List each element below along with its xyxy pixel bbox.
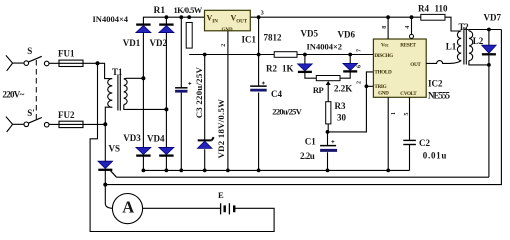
svg-text:C4: C4 — [271, 89, 282, 99]
svg-text:1K/0.5W: 1K/0.5W — [174, 5, 203, 15]
svg-text:R3: R3 — [335, 101, 346, 111]
svg-text:NE555: NE555 — [428, 91, 451, 101]
capacitor C2 — [403, 138, 447, 170]
svg-text:IN4004×4: IN4004×4 — [93, 14, 129, 24]
wire +12V line y54 — [189, 54, 373, 56]
wire pin5 CVOLT to C2 — [404, 97, 410, 140]
node rail pin4 — [410, 15, 414, 19]
node ground VD3 — [142, 169, 146, 173]
svg-text:4: 4 — [405, 26, 411, 29]
resistor R1 — [186, 23, 192, 49]
svg-text:RESET: RESET — [400, 43, 416, 49]
svg-text:C1: C1 — [305, 137, 316, 147]
svg-text:VD7: VD7 — [484, 13, 502, 23]
svg-text:IN4004×2: IN4004×2 — [307, 42, 343, 52]
wire IC1 GND to ground rail — [227, 31, 229, 171]
svg-text:T1: T1 — [112, 67, 123, 77]
wire zener branch vertical — [204, 55, 206, 171]
svg-text:3: 3 — [261, 11, 264, 17]
node rail C3 — [179, 15, 183, 19]
svg-text:5: 5 — [404, 113, 410, 116]
svg-text:Vcc: Vcc — [381, 43, 389, 49]
svg-text:2: 2 — [357, 81, 363, 84]
svg-text:IC2: IC2 — [428, 79, 443, 89]
capacitor C3 — [175, 67, 204, 119]
wire ground rail — [143, 169, 409, 171]
svg-text:DISCHG: DISCHG — [374, 53, 393, 59]
wire pin8 Vcc — [382, 17, 388, 39]
node FU1 output junction — [96, 61, 100, 65]
svg-text:8: 8 — [382, 26, 388, 29]
wire T1 primary bottom lead — [105, 107, 109, 124]
node rail R1 — [187, 15, 191, 19]
switch link dashed — [35, 60, 37, 121]
node VD6 top — [348, 53, 352, 57]
node VS cathode lineB — [103, 183, 107, 187]
svg-text:VD2: VD2 — [150, 38, 168, 48]
wire VD1-VD3 vertical line — [142, 17, 144, 170]
wire pin3 OUT to L1 — [426, 61, 461, 64]
op-amp IC2 NE555 — [373, 39, 450, 101]
switch S — [24, 46, 49, 66]
node rail VD2 — [165, 15, 169, 19]
wire left mains return line — [90, 63, 274, 231]
svg-text:VD3: VD3 — [123, 133, 141, 143]
node ground IC2 — [386, 169, 390, 173]
wire Vout / C4 vertical — [258, 17, 260, 170]
svg-text:CVOLT: CVOLT — [400, 91, 417, 97]
svg-text:30: 30 — [337, 113, 347, 123]
svg-text:S': S' — [27, 108, 35, 118]
svg-text:IC1: IC1 — [242, 35, 257, 45]
mains input fork upper — [6, 55, 24, 70]
node TRIG — [365, 84, 369, 88]
svg-text:7812: 7812 — [264, 33, 283, 43]
node rail pin8 — [386, 15, 390, 19]
svg-text:VD5: VD5 — [301, 29, 319, 39]
ammeter A — [112, 194, 142, 224]
svg-text:220u/25V: 220u/25V — [272, 107, 302, 117]
svg-text:VS: VS — [109, 144, 121, 154]
wire C3 vertical line — [180, 17, 182, 170]
node ground C1 — [326, 169, 330, 173]
wire S' to FU2 node — [49, 123, 105, 125]
wire pin4 RESET — [405, 17, 414, 38]
mains input fork lower — [6, 117, 24, 132]
wire S to FU1 to T1 — [49, 62, 98, 64]
svg-text:FU1: FU1 — [58, 49, 75, 59]
node C4 top — [257, 53, 261, 57]
wire pin1 GND — [388, 97, 397, 170]
svg-text:110: 110 — [435, 4, 449, 14]
zener diode VD2z — [197, 99, 226, 159]
svg-text:C2: C2 — [419, 138, 430, 148]
capacitor C1 — [300, 132, 337, 171]
svg-text:C3 220u/25V: C3 220u/25V — [194, 67, 204, 119]
diode VD2 — [150, 25, 174, 48]
node ground IC1 — [226, 169, 230, 173]
svg-text:R4: R4 — [418, 4, 429, 14]
node zener top — [203, 53, 207, 57]
node secondary top — [141, 76, 145, 80]
wire T1 primary top lead — [98, 63, 110, 78]
wire TRIG-THOLD net — [328, 72, 374, 132]
svg-text:VD1: VD1 — [123, 38, 141, 48]
resistor R2 — [266, 52, 297, 74]
wire ammeter to battery — [143, 207, 221, 209]
svg-text:TRIG: TRIG — [374, 84, 386, 90]
svg-text:220V~: 220V~ — [2, 90, 24, 100]
svg-text:R2: R2 — [266, 64, 277, 74]
transformer T2 — [456, 27, 501, 65]
svg-text:GND: GND — [222, 28, 234, 33]
diode VD1 — [123, 25, 151, 48]
op-amp IC1 7812 regulator — [205, 10, 283, 47]
node ground VD4 — [165, 169, 169, 173]
wire top rail from VD1 to T2 — [143, 17, 461, 31]
node ground zener — [203, 169, 207, 173]
switch S' — [24, 108, 49, 127]
svg-text:2.2u: 2.2u — [300, 151, 315, 161]
svg-text:THOLD: THOLD — [374, 69, 392, 75]
svg-text:1: 1 — [391, 112, 397, 115]
resistor R3 — [326, 101, 347, 132]
potentiometer RP — [313, 76, 352, 102]
svg-text:VD6: VD6 — [338, 30, 356, 40]
svg-text:VD2 18V/0.5W: VD2 18V/0.5W — [216, 99, 226, 159]
svg-text:S: S — [27, 46, 32, 56]
svg-text:2.2K: 2.2K — [334, 84, 352, 94]
node rail Vout — [257, 15, 261, 19]
node FU2 output junction — [103, 122, 107, 126]
svg-text:0.01u: 0.01u — [423, 151, 447, 161]
diode VD3 — [123, 133, 151, 156]
diode VD5 — [298, 29, 319, 79]
svg-text:1K: 1K — [282, 64, 294, 74]
svg-text:R1: R1 — [154, 6, 166, 16]
node VD7 bottom L2 — [487, 63, 491, 67]
transformer T1 — [108, 75, 167, 111]
battery E — [218, 190, 234, 214]
diode VD7 — [482, 13, 502, 178]
svg-text:OUT: OUT — [410, 62, 421, 68]
node VD7 top — [487, 28, 491, 32]
svg-text:6: 6 — [357, 65, 363, 68]
diode VD6 — [338, 30, 358, 79]
wire cathode line B — [105, 30, 501, 185]
svg-text:A: A — [122, 197, 134, 216]
node VD5 top — [303, 53, 307, 57]
fuse FU2 — [58, 110, 83, 128]
svg-text:FU2: FU2 — [58, 110, 75, 120]
thyristor VS — [98, 124, 120, 208]
svg-text:L1: L1 — [446, 41, 457, 51]
node R3 bottom — [326, 130, 330, 134]
diode VD4 — [147, 134, 174, 156]
node ground C4 — [257, 169, 261, 173]
node secondary bottom — [164, 107, 168, 111]
capacitor C4 — [250, 82, 303, 117]
svg-text:RP: RP — [313, 85, 324, 95]
node ground C3 — [179, 169, 183, 173]
svg-text:GND: GND — [378, 90, 389, 96]
svg-text:L2: L2 — [473, 36, 484, 46]
fuse FU1 — [58, 49, 83, 67]
resistor R4 — [418, 4, 448, 21]
svg-text:2: 2 — [221, 44, 227, 47]
wire VD2-VD4 vertical line — [165, 17, 167, 170]
wire gate line A — [117, 176, 489, 178]
svg-text:7: 7 — [357, 49, 363, 52]
svg-text:E: E — [218, 190, 224, 200]
svg-text:VD4: VD4 — [147, 134, 165, 144]
svg-text:T2: T2 — [459, 22, 470, 32]
